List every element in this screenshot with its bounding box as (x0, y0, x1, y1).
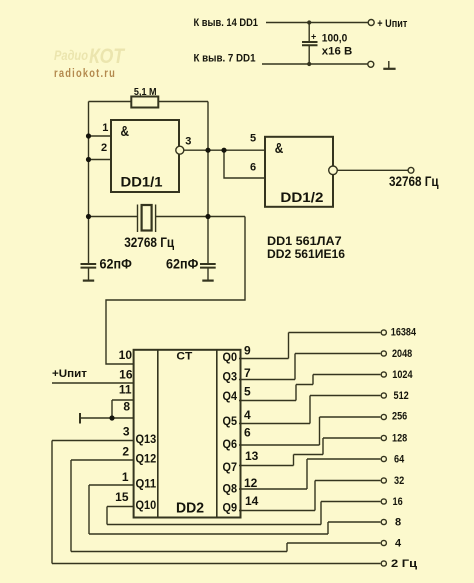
svg-text:Q13: Q13 (136, 432, 157, 446)
svg-text:512: 512 (394, 390, 409, 402)
svg-text:4: 4 (244, 408, 251, 422)
svg-text:DD1 561ЛА7: DD1 561ЛА7 (267, 234, 342, 248)
svg-text:2: 2 (101, 142, 107, 154)
svg-text:+Uпит: +Uпит (52, 368, 88, 380)
svg-text:7: 7 (244, 366, 251, 380)
svg-text:32: 32 (394, 475, 404, 487)
svg-text:128: 128 (392, 432, 407, 444)
svg-text:4: 4 (395, 538, 402, 550)
svg-text:+: + (311, 32, 316, 42)
svg-text:Q6: Q6 (223, 437, 238, 451)
svg-text:13: 13 (245, 449, 259, 463)
svg-text:2 Гц: 2 Гц (391, 558, 417, 570)
svg-text:32768 Гц: 32768 Гц (389, 174, 439, 189)
svg-text:32768 Гц: 32768 Гц (124, 235, 175, 250)
svg-text:1: 1 (122, 470, 129, 484)
svg-text:15: 15 (115, 490, 129, 504)
svg-text:х16 В: х16 В (322, 46, 353, 58)
svg-text:3: 3 (123, 425, 130, 439)
svg-text:10: 10 (119, 348, 133, 362)
svg-text:&: & (121, 124, 130, 140)
svg-text:Q7: Q7 (223, 460, 238, 474)
svg-text:9: 9 (244, 344, 251, 358)
svg-text:Q3: Q3 (223, 370, 238, 384)
svg-text:Q5: Q5 (223, 414, 238, 428)
svg-text:1024: 1024 (392, 369, 413, 381)
svg-text:radiokot.ru: radiokot.ru (54, 68, 116, 80)
svg-text:14: 14 (245, 494, 259, 508)
svg-text:16384: 16384 (391, 327, 417, 339)
svg-text:2048: 2048 (392, 348, 412, 360)
svg-text:DD1/1: DD1/1 (121, 175, 164, 190)
svg-text:Радио: Радио (54, 47, 88, 63)
svg-text:+ Uпит: + Uпит (377, 18, 408, 30)
svg-text:Q0: Q0 (223, 350, 238, 364)
svg-text:1: 1 (102, 122, 108, 134)
svg-text:16: 16 (119, 368, 133, 382)
svg-text:8: 8 (395, 517, 401, 529)
svg-text:8: 8 (123, 400, 130, 414)
svg-text:16: 16 (393, 496, 403, 508)
svg-text:Q4: Q4 (223, 389, 238, 403)
svg-text:62пФ: 62пФ (100, 256, 133, 271)
svg-text:6: 6 (244, 426, 251, 440)
svg-text:К выв. 7 DD1: К выв. 7 DD1 (194, 53, 256, 65)
svg-text:100,0: 100,0 (322, 33, 348, 45)
svg-text:К выв. 14 DD1: К выв. 14 DD1 (194, 17, 259, 29)
svg-text:DD2 561ИЕ16: DD2 561ИЕ16 (267, 247, 345, 261)
svg-text:64: 64 (394, 453, 405, 465)
svg-text:5,1 М: 5,1 М (134, 86, 157, 98)
svg-text:DD1/2: DD1/2 (280, 190, 323, 205)
svg-text:Q9: Q9 (223, 501, 238, 515)
svg-text:Q8: Q8 (223, 482, 238, 496)
svg-text:DD2: DD2 (176, 501, 204, 517)
svg-text:12: 12 (244, 476, 258, 490)
svg-text:11: 11 (119, 383, 132, 397)
svg-text:3: 3 (185, 136, 191, 148)
svg-text:62пФ: 62пФ (166, 256, 199, 271)
svg-text:CT: CT (176, 351, 192, 363)
svg-text:256: 256 (392, 411, 407, 423)
svg-text:Q11: Q11 (136, 477, 157, 491)
svg-text:6: 6 (250, 162, 256, 174)
svg-text:&: & (275, 141, 284, 157)
svg-text:Q12: Q12 (136, 452, 157, 466)
svg-text:Q10: Q10 (136, 498, 157, 512)
svg-text:КОТ: КОТ (89, 45, 126, 68)
svg-text:5: 5 (244, 385, 251, 399)
svg-text:5: 5 (250, 133, 256, 145)
svg-text:2: 2 (122, 445, 129, 459)
